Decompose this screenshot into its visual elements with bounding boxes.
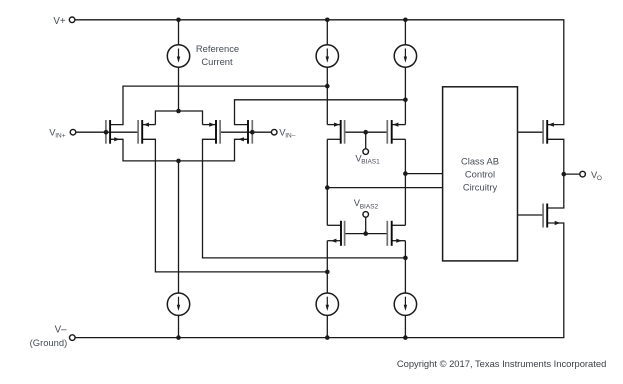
svg-text:IN–: IN– xyxy=(285,133,296,140)
svg-text:IN+: IN+ xyxy=(55,133,65,140)
svg-text:BIAS2: BIAS2 xyxy=(360,203,379,210)
svg-text:Control: Control xyxy=(465,169,495,180)
svg-text:(Ground): (Ground) xyxy=(30,337,68,348)
svg-text:Reference: Reference xyxy=(196,43,239,54)
svg-text:Class AB: Class AB xyxy=(461,156,499,167)
svg-text:Circuitry: Circuitry xyxy=(463,182,498,193)
svg-text:O: O xyxy=(597,175,602,182)
svg-text:V+: V+ xyxy=(53,16,66,27)
svg-text:V–: V– xyxy=(55,325,68,336)
svg-text:Current: Current xyxy=(201,56,233,67)
svg-text:Copyright © 2017, Texas Instru: Copyright © 2017, Texas Instruments Inco… xyxy=(397,358,606,369)
svg-text:BIAS1: BIAS1 xyxy=(361,159,380,166)
